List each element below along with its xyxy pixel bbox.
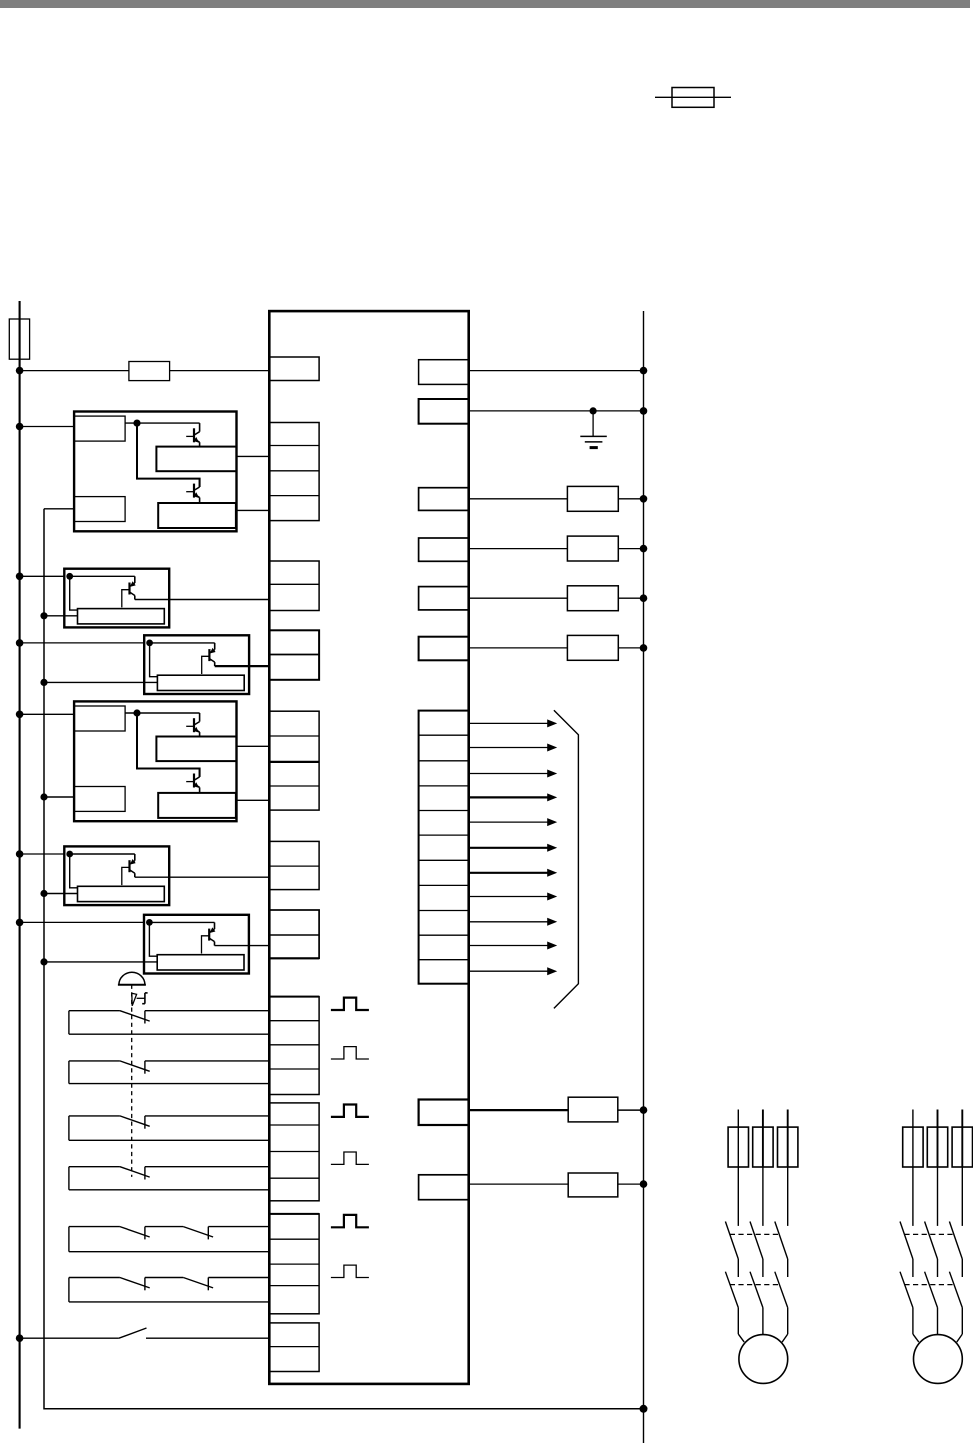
wire: return to photocoupler block PC6: [44, 961, 157, 963]
photocoupler block PC2: [64, 569, 169, 628]
signal arrow 9: [469, 918, 558, 926]
fuse F1 (top right): [655, 88, 731, 108]
contactor K21: [725, 1272, 787, 1342]
switch S2 (NC): [69, 1061, 269, 1084]
switch S5 (double NC): [69, 1227, 269, 1252]
signal arrow 1: [469, 719, 558, 727]
signal arrow 4: [469, 793, 558, 801]
contactor K12: [900, 1222, 962, 1278]
terminal L (power input): [269, 357, 319, 381]
signal arrow 8: [469, 893, 558, 901]
connector stack (digital outputs): [419, 711, 469, 984]
photocoupler block PC6: [144, 915, 249, 974]
node: output-bus junction y=499: [640, 495, 648, 503]
bold divider edges on left terminal boxes: [269, 762, 319, 1214]
signal arrow 10: [469, 942, 558, 950]
signal arrow 7: [469, 869, 558, 877]
node: bus tap A: [16, 367, 24, 375]
signal arrow 3: [469, 770, 558, 778]
ground symbol: [580, 411, 607, 448]
mechanical link (dashed): [131, 985, 133, 1177]
supply lines 1: [738, 1110, 787, 1168]
terminal R2 (ground): [419, 399, 469, 424]
node: return tap PC4: [40, 793, 47, 800]
signal arrow 2: [469, 744, 558, 752]
wire: photocoupler block PC1 output 1: [237, 455, 270, 457]
wire: output at y=648: [469, 647, 644, 649]
wire: photocoupler block PC4 output 2: [237, 799, 270, 801]
thermal trip symbol: [132, 993, 148, 1006]
common return line (x=44): [44, 509, 644, 1409]
node: bus tap photocoupler block PC4: [16, 711, 24, 719]
wire: bus to photocoupler block PC6: [20, 921, 144, 923]
fuses 2: [903, 1127, 973, 1167]
terminal R8 (relay output 2): [419, 1175, 469, 1200]
fuse F2 (left bus): [9, 319, 29, 359]
node: bus tap S7: [16, 1334, 24, 1342]
terminal R1 (supply out): [419, 360, 469, 385]
node: bus tap photocoupler block PC5: [16, 850, 24, 858]
terminal group input 4: [269, 630, 319, 680]
wire: return to photocoupler block PC3: [44, 681, 157, 683]
inverter main block U1: [269, 311, 468, 1384]
thermal sensor dome: [118, 972, 146, 984]
wire: bus to photocoupler block PC5: [20, 853, 65, 855]
wires to contactor 1: [738, 1167, 787, 1226]
node: return tap photocoupler block PC5: [40, 890, 47, 897]
switch S1 (NC): [69, 1011, 269, 1034]
terminal group input 5: [269, 711, 319, 810]
switch S3 (NC): [69, 1116, 269, 1140]
contactor K11: [725, 1222, 787, 1278]
pulse signal icon 3: [331, 1105, 369, 1117]
signal arrow 5: [469, 818, 558, 826]
resistor R-line (supply): [129, 362, 170, 381]
photocoupler block PC5: [64, 846, 169, 905]
pulse signal icon 4: [331, 1152, 369, 1164]
node: return tap photocoupler block PC2: [40, 612, 47, 619]
wire: photocoupler block PC1 output 2: [237, 509, 270, 511]
node: bus tap photocoupler block PC3: [16, 639, 24, 647]
wire: output at y=499: [469, 498, 644, 500]
output group bracket: [554, 710, 579, 1008]
node: bus tap photocoupler block PC2: [16, 573, 24, 581]
terminal group switch inputs 4: [269, 1323, 319, 1372]
photocoupler block PC3: [144, 635, 249, 694]
wire: relay output 1: [469, 1109, 644, 1111]
switch S6 (double NC): [69, 1278, 269, 1302]
resistor: [567, 536, 618, 561]
node: bus tap photocoupler block PC1: [16, 423, 24, 431]
photocoupler block PC4: [74, 701, 236, 821]
motor M1: [739, 1335, 788, 1384]
node: output-bus junction y=549: [640, 545, 648, 553]
wire: photocoupler block PC2 output: [135, 599, 269, 601]
wire: output at y=549: [469, 548, 644, 550]
terminal group input 3: [269, 561, 319, 611]
switch S4 (NC): [69, 1167, 269, 1190]
resistor: [567, 586, 618, 611]
wire: relay output 2: [469, 1183, 644, 1185]
wire: output at y=598: [469, 597, 644, 599]
wire: bus to photocoupler block PC4: [20, 713, 75, 715]
terminal R7 (relay output 1): [419, 1100, 469, 1126]
node: relay1-bus junction: [640, 1106, 648, 1114]
pulse signal icon 1: [331, 998, 369, 1010]
node: output-bus junction y=598: [640, 594, 648, 602]
terminal R6 (output 4): [419, 637, 469, 661]
node: return tap photocoupler block PC3: [40, 679, 47, 686]
terminal R5 (output 3): [419, 587, 469, 610]
motor M2: [914, 1335, 963, 1384]
node: return tap photocoupler block PC6: [40, 958, 47, 965]
wire: return to photocoupler block PC5: [44, 893, 78, 895]
terminal group switch inputs 2: [269, 1103, 319, 1201]
terminal R4 (output 2): [419, 538, 469, 561]
node: output-bus junction y=648: [640, 644, 648, 652]
terminal R3 (output 1): [419, 488, 469, 511]
terminal group input 7: [269, 910, 319, 958]
wire: photocoupler block PC4 output 1: [237, 745, 270, 747]
wire: photocoupler block PC5 output: [135, 876, 269, 878]
wire: photocoupler block PC6 output: [215, 945, 270, 947]
wire: return to photocoupler block PC2: [44, 615, 78, 617]
wire: return to photocoupler block PC1: [44, 508, 74, 510]
wire: bus to photocoupler block PC1: [20, 426, 75, 428]
wire: bus to photocoupler block PC3: [20, 642, 145, 644]
wire: terminal R1 to bus: [469, 370, 644, 372]
signal arrow 6: [469, 844, 558, 852]
wire: return to photocoupler block PC4: [44, 796, 74, 798]
terminal group FW/RV inputs: [269, 423, 319, 521]
photocoupler block PC1: [74, 412, 236, 532]
page header bar: [0, 0, 970, 8]
resistor RL1: [568, 1097, 618, 1122]
wire: terminal R2 to bus: [469, 410, 644, 412]
switch S7 (NO): [20, 1328, 270, 1338]
terminal group input 6: [269, 841, 319, 889]
node: return-to-bus junction: [640, 1405, 648, 1413]
node: ground tap: [590, 407, 597, 414]
contactor K22: [900, 1272, 962, 1342]
resistor RL2: [568, 1173, 618, 1197]
node: relay2-bus junction: [640, 1180, 648, 1188]
wire: bus to terminal L: [20, 370, 270, 372]
terminal group switch inputs 1: [269, 997, 319, 1095]
right common bus: [643, 311, 645, 1443]
wire: photocoupler block PC3 output: [215, 665, 270, 667]
node: R1-bus junction: [640, 367, 648, 375]
terminal group switch inputs 3: [269, 1214, 319, 1314]
resistor: [567, 635, 618, 660]
pulse signal icon 5: [331, 1215, 369, 1227]
fuses 1: [728, 1127, 798, 1167]
node: R2-bus junction: [640, 407, 648, 415]
wires to contactor 2: [913, 1167, 962, 1226]
supply lines 2: [913, 1110, 962, 1168]
node: bus tap photocoupler block PC6: [16, 919, 24, 927]
signal arrow 11: [469, 967, 558, 975]
pulse signal icon 2: [331, 1047, 369, 1059]
pulse signal icon 6: [331, 1265, 369, 1277]
resistor: [567, 486, 618, 511]
left supply bus: [19, 301, 21, 1429]
wire: bus to photocoupler block PC2: [20, 575, 65, 577]
